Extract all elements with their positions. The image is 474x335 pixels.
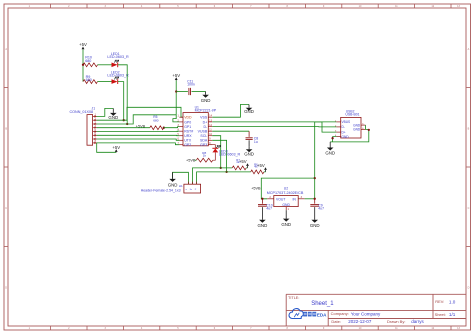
title block frame: [286, 294, 466, 326]
wire LED2 cathode down to row2: [118, 82, 124, 121]
wire J1 pin1 to GND: [97, 108, 114, 116]
wire +5V stem down to R9: [82, 50, 84, 82]
svg-text:GND: GND: [353, 128, 361, 132]
U2 pin stubs and labels: [267, 198, 274, 200]
svg-text:Sheet_1: Sheet_1: [311, 301, 334, 307]
node junction SCL/rail1: [220, 167, 222, 169]
svg-text:IN: IN: [292, 198, 296, 202]
node junction USB gnd left: [331, 137, 333, 139]
node junction LED2/row2: [123, 119, 125, 121]
svg-text:GP1: GP1: [184, 125, 191, 129]
wire row2 J1 pin2: [97, 107, 184, 120]
svg-text:GND: GND: [244, 152, 254, 157]
capacitor C8: [248, 131, 250, 137]
svg-text:+5V: +5V: [257, 163, 265, 168]
svg-text:darrys: darrys: [411, 319, 424, 324]
svg-text:GND: GND: [258, 223, 268, 228]
wire VUSB to C8: [212, 130, 249, 132]
svg-text:SCL: SCL: [200, 134, 207, 138]
svg-text:1k: 1k: [203, 154, 207, 158]
svg-text:TITLE:: TITLE:: [288, 296, 299, 300]
capacitor C9: [314, 199, 316, 204]
wire D+ to USB: [212, 122, 336, 132]
power flag +5V (R6): [264, 171, 266, 173]
svg-text:680: 680: [85, 59, 91, 63]
svg-text:Sheet:: Sheet:: [435, 312, 446, 317]
ground flag (U2): [285, 210, 287, 218]
svg-text:GND: GND: [281, 222, 291, 227]
svg-text:VSS: VSS: [200, 116, 208, 120]
node junction SDA/rail2: [225, 171, 227, 173]
svg-text:GND: GND: [168, 182, 178, 187]
LED LED1: [112, 63, 118, 68]
frame row ticks left/right: [4, 87, 8, 89]
node junction LED1/row3: [126, 123, 128, 125]
svg-text:1.0: 1.0: [449, 299, 456, 304]
svg-text:SDA: SDA: [200, 139, 208, 143]
svg-text:1/1: 1/1: [449, 312, 456, 317]
svg-text:680: 680: [153, 119, 158, 123]
connector J1 pins 1-8 with arrows: [93, 115, 97, 117]
power flag +5V (top left): [82, 48, 84, 50]
frame column ticks top/bottom: [50, 4, 52, 8]
resistor R7: [232, 166, 246, 170]
svg-text:USB-B01: USB-B01: [345, 112, 359, 116]
svg-text:GND: GND: [325, 151, 335, 156]
svg-text:GND: GND: [201, 98, 211, 103]
op-amp U1 MCP2221-I/P body: [183, 113, 208, 146]
svg-text:D: D: [5, 287, 7, 290]
svg-text:VUSB: VUSB: [198, 130, 208, 134]
wire VBUS from USB down to U2: [315, 122, 337, 199]
svg-text:H1: H1: [179, 184, 183, 188]
svg-text:GND: GND: [310, 223, 320, 228]
power flag +5V (R7): [246, 167, 247, 169]
svg-text:CONN_01X08: CONN_01X08: [70, 110, 94, 114]
USB2 pins and labels: [336, 121, 340, 123]
svg-text:D: D: [468, 287, 470, 290]
wire header pin1 to GND: [173, 172, 189, 184]
svg-text:D-: D-: [342, 125, 345, 129]
node junction USB gnd right: [368, 129, 370, 131]
svg-text:UTX: UTX: [184, 139, 192, 143]
capacitor C11: [188, 88, 190, 95]
svg-text:GP3: GP3: [200, 143, 207, 147]
svg-text:VOUT: VOUT: [276, 198, 285, 202]
node junction +5V/R10: [82, 64, 84, 66]
svg-text:VBUS: VBUS: [342, 120, 351, 124]
node junction R5 out: [163, 127, 165, 129]
svg-text:LED-0603_R: LED-0603_R: [219, 153, 241, 157]
wire LED1 cathode down to row3: [118, 65, 127, 124]
node junction C10 tap: [261, 198, 263, 200]
node junction C11 tap: [175, 90, 177, 92]
ground flag (C10): [261, 207, 263, 220]
wire SCL down to rail1: [212, 136, 220, 168]
wire row6 J1 pin6 to URX: [97, 134, 180, 136]
wire SDA down to rail2: [212, 140, 226, 172]
svg-text:D+: D+: [203, 120, 208, 124]
wire USB pin4 gnd: [333, 137, 337, 142]
svg-text:GND: GND: [244, 109, 254, 114]
ground flag (C9): [314, 207, 316, 220]
wire to C11: [176, 91, 188, 93]
svg-text:GP0: GP0: [184, 120, 191, 124]
resistor R6: [251, 170, 264, 174]
LED LED2: [112, 79, 118, 84]
power flag +5V (above U1): [175, 79, 177, 81]
wire row8 J1 pin8 to GP2: [97, 143, 180, 145]
wire D- to USB: [212, 126, 336, 128]
svg-text:MCP2221-I/P: MCP2221-I/P: [195, 109, 217, 113]
EasyEDA logo text: [303, 312, 307, 317]
ground flag (VSS): [248, 105, 250, 108]
node junction C9 tap: [314, 198, 316, 200]
wire GP3 to LED3: [208, 145, 215, 149]
wire row5 J1 pin5 to RST#: [97, 130, 180, 132]
svg-text:+5V: +5V: [239, 159, 247, 164]
wire +5V stem to GP0: [173, 115, 180, 122]
U1 pins and pin labels: [179, 116, 183, 118]
svg-text:GND: GND: [342, 135, 350, 139]
ground flag (C8): [248, 140, 250, 146]
svg-text:+5VB: +5VB: [251, 186, 261, 190]
resistor R5: [150, 126, 164, 130]
svg-text:EDA: EDA: [317, 312, 327, 317]
svg-text:100n: 100n: [187, 83, 195, 87]
svg-text:C: C: [5, 207, 7, 210]
wire VSS to GND: [212, 105, 249, 118]
wire USB shield gnd loop: [365, 125, 367, 129]
resistor R9: [83, 80, 98, 84]
svg-text:4u7: 4u7: [266, 207, 272, 211]
svg-text:C: C: [468, 207, 470, 210]
svg-text:URX: URX: [184, 134, 192, 138]
wire rail to +5VB riser: [261, 178, 314, 199]
svg-text:+5V: +5V: [172, 73, 180, 78]
svg-text:GND: GND: [108, 115, 118, 120]
regulator U2 MCP1703T-2402E/CB body: [274, 196, 298, 207]
svg-text:680: 680: [86, 78, 92, 82]
ground flag (header): [172, 172, 174, 179]
svg-text:+5VB: +5VB: [186, 159, 196, 163]
header connector H1 Header-Female-2.54_1x3: [184, 184, 201, 193]
svg-text:MCP1703T-2402E/CB: MCP1703T-2402E/CB: [267, 191, 304, 195]
wire R10 to LED1: [98, 64, 112, 66]
LED LED3: [212, 147, 218, 149]
svg-text:Company:: Company:: [331, 311, 349, 316]
svg-text:4u7: 4u7: [318, 207, 324, 211]
svg-text:Header-Female-2.54_1x3: Header-Female-2.54_1x3: [141, 188, 181, 192]
wire R9 to LED2: [98, 81, 112, 83]
wire row3 J1 pin3: [97, 115, 177, 124]
wire header pin3 riser to rail2: [197, 172, 251, 184]
resistor R10: [83, 63, 98, 67]
svg-text:GP2: GP2: [184, 143, 191, 147]
connector J1 CONN_01X08: [87, 115, 93, 146]
wire C11 to GND: [192, 91, 206, 93]
ground flag (J1 pin1): [112, 108, 114, 113]
svg-text:Date:: Date:: [331, 319, 341, 324]
svg-text:LED-0603_R: LED-0603_R: [107, 74, 129, 78]
EasyEDA logo cloud: [289, 309, 303, 319]
wire U2 IN to VBUS riser: [305, 198, 315, 200]
svg-text:2022-12-07: 2022-12-07: [348, 319, 372, 324]
node junction VBUS/rail: [314, 177, 316, 179]
header H1 pin stubs: [187, 182, 189, 185]
wire +5V stem down: [175, 80, 177, 114]
svg-text:U2: U2: [284, 187, 288, 191]
wire row7 J1 pin7 to UTX: [97, 139, 180, 140]
svg-text:Drawn By:: Drawn By:: [387, 319, 405, 324]
svg-text:LED-0603_R: LED-0603_R: [107, 55, 129, 59]
svg-text:REV:: REV:: [435, 299, 444, 304]
wire J1 pin8 branch to +5V: [97, 143, 117, 152]
wire R5 to GP1: [164, 127, 180, 128]
svg-text:RST#: RST#: [184, 130, 193, 134]
wire LED3 to R8: [213, 152, 216, 160]
svg-text:D+: D+: [342, 130, 346, 134]
connector USB2 USB-B01 body: [341, 117, 361, 138]
svg-text:+5V: +5V: [112, 145, 120, 150]
wire header pin2 riser to rail1: [193, 168, 233, 184]
power flag +5V (below J1): [115, 151, 117, 153]
ground flag (USB): [329, 142, 331, 148]
ground flag (C11): [205, 92, 207, 95]
resistor R8: [196, 158, 213, 162]
svg-text:+5V: +5V: [79, 42, 87, 47]
capacitor C10: [261, 199, 263, 204]
wire row4 J1 pin4 to R5: [97, 127, 150, 129]
svg-text:VDD: VDD: [184, 116, 192, 120]
svg-text:1u: 1u: [254, 140, 258, 144]
svg-text:GND: GND: [282, 203, 290, 207]
svg-text:Your Company: Your Company: [351, 311, 381, 316]
